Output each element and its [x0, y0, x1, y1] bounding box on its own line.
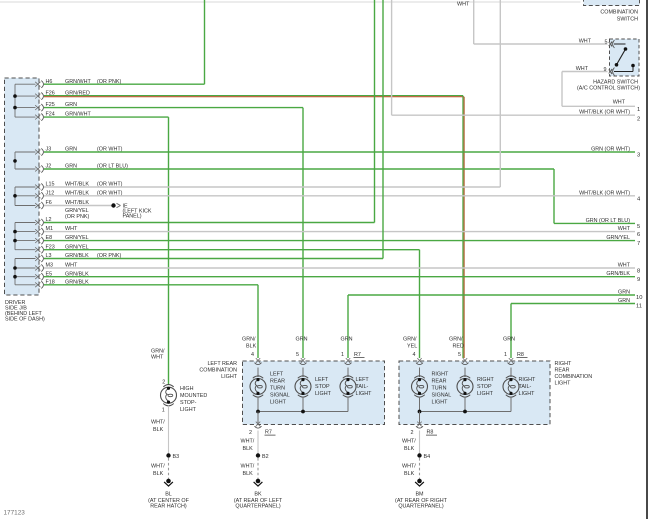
svg-text:8: 8 [637, 269, 640, 275]
dashed wire B2 to ground BK [257, 458, 259, 479]
svg-text:GRN: GRN [341, 337, 353, 343]
hazard switch contacts [614, 44, 635, 72]
lamp right stop light [457, 368, 473, 412]
svg-text:BLK: BLK [246, 344, 257, 350]
svg-text:WHT: WHT [579, 39, 592, 45]
svg-text:11: 11 [636, 304, 642, 310]
svg-text:2: 2 [411, 430, 414, 436]
dashed wire B4 to ground BM [419, 458, 421, 479]
connector pin E5 [35, 273, 43, 280]
svg-text:BLK: BLK [243, 446, 254, 452]
wire E5 GRN/BLK to connector 9 [44, 276, 635, 278]
svg-text:BK: BK [254, 492, 262, 498]
wire F18 GRN/BLK to left turn signal pin 4 [44, 285, 258, 358]
connector pin M1 [35, 228, 43, 235]
label wire 1 [613, 99, 641, 113]
svg-text:LIGHT: LIGHT [356, 391, 373, 397]
label wire 11 [618, 298, 642, 310]
svg-text:4: 4 [413, 352, 416, 358]
svg-text:STOP: STOP [477, 384, 492, 390]
junction B3 [166, 453, 179, 460]
svg-text:GRN: GRN [503, 337, 515, 343]
label wire 10 [618, 290, 642, 302]
svg-text:WHT/: WHT/ [402, 439, 416, 445]
svg-text:R7: R7 [265, 430, 272, 436]
svg-text:7: 7 [637, 241, 640, 247]
pin label F23 GRN/YEL [46, 244, 89, 250]
wire 10 GRN from left tail light pin 1 [348, 295, 635, 358]
svg-text:REAR HATCH): REAR HATCH) [150, 504, 187, 510]
svg-text:1: 1 [341, 352, 344, 358]
wire H6 GRN/WHT to top [44, 0, 205, 84]
svg-text:WHT: WHT [151, 355, 164, 361]
lamp left rear turn signal light [250, 368, 266, 412]
svg-text:TURN: TURN [270, 386, 285, 392]
label GRN/YEL right pin 4 [403, 337, 417, 350]
svg-text:(OR PNK): (OR PNK) [65, 214, 89, 220]
svg-text:REAR: REAR [432, 379, 447, 385]
svg-text:1: 1 [162, 407, 165, 413]
svg-text:WHT/BLK (OR WHT): WHT/BLK (OR WHT) [579, 190, 630, 196]
svg-text:GRN (OR WHT): GRN (OR WHT) [591, 147, 630, 153]
svg-text:TURN: TURN [432, 386, 447, 392]
connector label R8 top [517, 352, 528, 358]
svg-text:BLK: BLK [404, 446, 415, 452]
right combo pin 5 [458, 352, 469, 365]
hazard switch label [577, 80, 640, 92]
wire L2 GRN/YEL (OR PNK) to top [44, 0, 375, 223]
wire F6 WHT/BLK to IE [44, 205, 112, 207]
wire M3 WHT to connector 8 [44, 267, 635, 269]
high mounted stoplight label [180, 386, 207, 413]
label WHT/BLK below B4 [402, 464, 416, 477]
J/B internal bus L15-F6 [13, 187, 35, 206]
svg-text:GRN (OR LT BLU): GRN (OR LT BLU) [586, 218, 631, 224]
svg-text:GRN: GRN [618, 298, 630, 304]
svg-text:GRN: GRN [296, 337, 308, 343]
left combo pin 2 [249, 412, 262, 437]
wire L15 WHT/BLK to top [44, 0, 500, 187]
svg-text:QUARTERPANEL): QUARTERPANEL) [235, 504, 281, 510]
svg-text:LIGHT: LIGHT [270, 400, 287, 406]
connector pin F26 [35, 93, 43, 100]
J/B internal bus L2-F23 [13, 223, 35, 250]
hazard switch pin 5 [605, 40, 615, 48]
wire WHT hazard switch pin 9 to connector 1 [562, 72, 635, 107]
wire F25 GRN to left stop light pin 5 [44, 108, 303, 358]
svg-text:LIGHT: LIGHT [221, 374, 238, 380]
label WHT/BLK below B3 [151, 464, 165, 477]
label wire 9 [606, 271, 640, 283]
pin label F24 GRN/WHT [46, 112, 92, 118]
svg-text:RIGHT: RIGHT [555, 361, 572, 367]
svg-text:5: 5 [458, 352, 461, 358]
wire 11 GRN from right tail light pin 1 [511, 304, 635, 359]
svg-text:5: 5 [296, 352, 299, 358]
label wire 5 [586, 218, 641, 230]
left rear combination light label [199, 361, 237, 380]
svg-text:1: 1 [504, 352, 507, 358]
label GRN/WHT high mount [151, 349, 165, 361]
svg-text:COMBINATION: COMBINATION [199, 368, 237, 374]
lamp right tail-light [503, 368, 519, 412]
svg-text:GRN/YEL: GRN/YEL [606, 235, 630, 241]
label GRN/RED right pin 5 [449, 337, 464, 350]
label right stop light [477, 377, 494, 397]
connector pin F24 [35, 114, 43, 121]
right combo internal bus [418, 410, 511, 414]
svg-text:177123: 177123 [4, 510, 26, 517]
svg-text:LIGHT: LIGHT [432, 400, 449, 406]
svg-text:GRN/: GRN/ [403, 337, 417, 343]
svg-text:QUARTERPANEL): QUARTERPANEL) [398, 504, 444, 510]
wire top cut line [0, 1, 581, 3]
svg-text:WHT: WHT [457, 2, 470, 8]
combination switch box [584, 0, 640, 6]
svg-text:COMBINATION: COMBINATION [600, 10, 638, 16]
label left stop light [315, 377, 332, 397]
svg-text:BLK: BLK [153, 427, 164, 433]
label wire 4 [579, 190, 641, 202]
svg-text:RIGHT: RIGHT [519, 377, 536, 383]
connector pin L15 [35, 183, 43, 190]
svg-text:STOP: STOP [315, 384, 330, 390]
svg-text:BLK: BLK [404, 471, 415, 477]
label WHT/BLK [241, 439, 255, 452]
right combo pin 4 [413, 352, 424, 365]
hazard switch box [610, 39, 640, 76]
svg-text:2: 2 [637, 117, 640, 123]
hazard switch pin 9 [604, 67, 615, 75]
svg-text:3: 3 [637, 153, 640, 159]
lamp left tail-light [340, 368, 356, 412]
label right tail-light [519, 377, 536, 397]
connector pin M3 [35, 264, 43, 271]
pin label J12 WHT/BLK (OR WHT) [46, 190, 123, 196]
driver side J/B label [5, 300, 45, 323]
svg-text:COMBINATION: COMBINATION [555, 374, 593, 380]
dashed wire B3 to ground BL [168, 458, 170, 479]
connector pin F18 [35, 281, 43, 288]
svg-text:TAIL-: TAIL- [356, 384, 369, 390]
svg-text:LIGHT: LIGHT [555, 381, 572, 387]
wire WHT/BLK left combo to B2 [257, 431, 259, 456]
connector pin H6 [35, 81, 43, 88]
label wire 6 [618, 226, 641, 238]
svg-text:B4: B4 [424, 454, 431, 460]
svg-text:R8: R8 [427, 430, 434, 436]
svg-text:TAIL-: TAIL- [519, 384, 532, 390]
svg-text:(A/C CONTROL SWITCH): (A/C CONTROL SWITCH) [577, 86, 640, 92]
svg-text:BLK: BLK [243, 471, 254, 477]
svg-text:WHT: WHT [576, 66, 589, 72]
connector pin L3 [35, 255, 43, 262]
J/B internal bus H6-F24 [13, 84, 35, 117]
wire E8 GRN/YEL to connector 7 [44, 240, 635, 242]
ground BM [395, 479, 448, 510]
svg-text:B2: B2 [262, 454, 269, 460]
svg-text:RED: RED [453, 344, 464, 350]
pin label M3 WHT [46, 263, 78, 269]
svg-text:RIGHT: RIGHT [432, 372, 449, 378]
wire WHT top to hazard switch pin 5 [474, 0, 608, 44]
svg-text:WHT/: WHT/ [241, 464, 255, 470]
label wire 7 [606, 235, 640, 247]
connector pin F23 [35, 246, 43, 253]
svg-text:5: 5 [637, 224, 640, 230]
combination switch label [600, 10, 638, 23]
connector label R7 bottom [265, 430, 276, 436]
svg-text:GRN/: GRN/ [242, 337, 256, 343]
ground BK [234, 479, 283, 510]
svg-text:GRN/BLK: GRN/BLK [606, 271, 630, 277]
connector pin J2 [35, 165, 43, 172]
left combo internal bus [256, 410, 348, 414]
svg-text:LEFT REAR: LEFT REAR [207, 361, 237, 367]
lamp high mounted stoplight [161, 385, 177, 406]
wire F23 GRN/YEL to right turn signal pin 4 [44, 250, 420, 358]
svg-text:LIGHT: LIGHT [315, 391, 332, 397]
svg-text:WHT: WHT [613, 99, 626, 105]
svg-text:B3: B3 [173, 454, 180, 460]
pin label L3 GRN/BLK (OR PNK) [46, 253, 122, 259]
wire WHT/BLK right combo to B4 [419, 431, 421, 456]
pin label E8 GRN/YEL [46, 235, 89, 241]
svg-text:BM: BM [415, 492, 424, 498]
wire F26 GRN/RED to right stop light pin 5 [44, 96, 464, 359]
svg-text:10: 10 [636, 295, 642, 301]
pin label F25 GRN [46, 102, 78, 108]
label wire 8 [618, 263, 641, 275]
connector pin E8 [35, 237, 43, 244]
wire WHT/BLK top to connector 2 [392, 0, 635, 115]
svg-text:9: 9 [604, 67, 607, 73]
svg-text:2: 2 [249, 430, 252, 436]
left combo pin 4 [251, 352, 262, 365]
label left rear turn signal light [270, 372, 290, 406]
wire J3 GRN (OR WHT) to connector 3 [44, 151, 635, 153]
right rear combination light box [399, 361, 550, 425]
wire J2 GRN (OR LT BLU) to connector 5 [44, 169, 635, 223]
svg-text:REAR: REAR [270, 379, 285, 385]
svg-text:WHT: WHT [618, 226, 631, 232]
pin label F26 GRN/RED [46, 91, 90, 97]
left combo pin 5 [296, 352, 307, 365]
svg-text:SIGNAL: SIGNAL [432, 393, 452, 399]
svg-text:RIGHT: RIGHT [477, 377, 494, 383]
connector pin F25 [35, 104, 43, 111]
junction B2 [256, 453, 269, 460]
svg-text:SIGNAL: SIGNAL [270, 393, 290, 399]
wire M1 WHT to connector 6 [44, 231, 635, 233]
ground BL (at center of rear hatch) [148, 479, 190, 510]
right rear combination light label [555, 361, 593, 387]
left combo pin 1 [341, 352, 352, 365]
left rear combination light box [243, 361, 385, 425]
svg-text:WHT/: WHT/ [151, 420, 165, 426]
svg-text:YEL: YEL [407, 344, 417, 350]
svg-text:PANEL): PANEL) [123, 214, 142, 220]
label GRN/BLK left pin 4 [242, 337, 257, 350]
svg-text:WHT/: WHT/ [402, 464, 416, 470]
svg-text:BL: BL [165, 492, 172, 498]
svg-text:2: 2 [162, 379, 165, 385]
connector pin L2 [35, 219, 43, 226]
pin label J3 GRN (OR WHT) [46, 147, 123, 153]
svg-text:9: 9 [637, 277, 640, 283]
svg-text:HIGH: HIGH [180, 386, 194, 392]
right page border [646, 0, 648, 519]
svg-text:5: 5 [605, 40, 608, 46]
node IE (left kick panel) [111, 203, 152, 219]
svg-text:STOP-: STOP- [180, 400, 197, 406]
pin label J2 GRN (OR LT BLU) [46, 164, 129, 170]
pin label E5 GRN/BLK [46, 271, 90, 277]
wire L3 GRN/BLK (OR PNK) to top [44, 0, 383, 259]
svg-text:4: 4 [251, 352, 254, 358]
svg-text:GRN/: GRN/ [449, 337, 463, 343]
svg-text:LEFT: LEFT [270, 372, 284, 378]
wire WHT/BLK high mount to B3 [168, 406, 170, 456]
connector label R7 top [354, 352, 365, 358]
svg-text:SWITCH: SWITCH [617, 17, 638, 23]
label left tail-light [356, 377, 373, 397]
J/B internal bus L3-F18 [13, 259, 35, 285]
right combo pin 2 [411, 412, 424, 437]
svg-text:WHT/: WHT/ [151, 464, 165, 470]
label right rear turn signal light [432, 372, 452, 406]
J/B internal bus J3-J2 [13, 152, 35, 169]
pin label F18 GRN/BLK [46, 279, 90, 285]
svg-text:6: 6 [637, 232, 640, 238]
connector label R8 bottom [426, 430, 437, 436]
lamp right rear turn signal light [412, 368, 428, 412]
connector pin F6 [35, 202, 43, 209]
svg-text:REAR: REAR [555, 368, 570, 374]
wire J12 WHT/BLK to connector 4 [44, 195, 635, 197]
svg-text:WHT/BLK (OR WHT): WHT/BLK (OR WHT) [579, 110, 630, 116]
svg-text:LEFT: LEFT [356, 377, 370, 383]
pin label H6 GRN/WHT (OR PNK) [46, 79, 122, 85]
svg-text:SIDE OF DASH): SIDE OF DASH) [5, 317, 45, 323]
svg-text:1: 1 [637, 107, 640, 113]
svg-text:GRN/YEL: GRN/YEL [65, 208, 89, 214]
svg-text:WHT/: WHT/ [241, 439, 255, 445]
svg-text:BLK: BLK [153, 471, 164, 477]
wire F24 GRN/WHT to high mounted stoplight [44, 117, 169, 385]
connector pin J3 [35, 148, 43, 155]
pin label F6 WHT/BLK [46, 200, 90, 206]
svg-text:WHT: WHT [618, 263, 631, 269]
label wire 3 [591, 147, 640, 159]
svg-text:LIGHT: LIGHT [477, 391, 494, 397]
driver side J/B box [5, 78, 40, 295]
connector pin J12 [35, 192, 43, 199]
svg-text:GRN: GRN [618, 290, 630, 296]
label WHT/BLK [151, 420, 165, 433]
junction B4 [417, 453, 430, 460]
label WHT/BLK below B2 [241, 464, 255, 477]
label WHT/BLK [402, 439, 416, 452]
pin label L2 GRN/YEL (OR PNK) [46, 208, 90, 223]
lamp left stop light [295, 368, 311, 412]
svg-text:LIGHT: LIGHT [180, 407, 197, 413]
pin label M1 WHT [46, 226, 78, 232]
pin label L15 WHT/BLK (OR WHT) [46, 182, 123, 188]
right combo pin 1 [504, 352, 515, 365]
svg-text:R7: R7 [354, 352, 361, 358]
svg-text:LIGHT: LIGHT [519, 391, 536, 397]
svg-text:MOUNTED: MOUNTED [180, 393, 207, 399]
svg-text:R8: R8 [517, 352, 524, 358]
label wire 2 [579, 110, 640, 123]
svg-text:LEFT: LEFT [315, 377, 329, 383]
